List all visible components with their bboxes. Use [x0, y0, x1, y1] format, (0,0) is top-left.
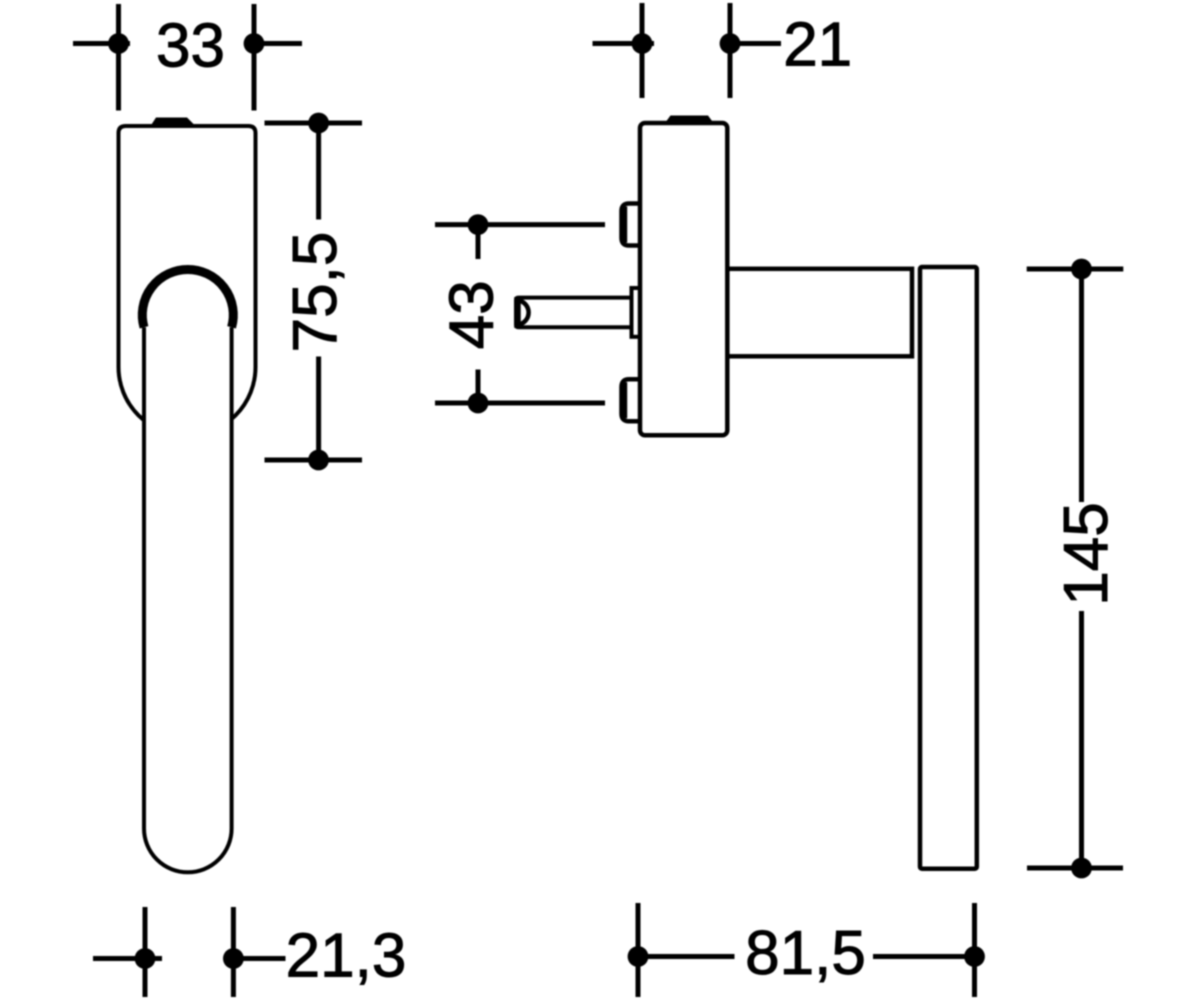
lever grip right edge (front view): [230, 327, 234, 828]
dim 21,3 leader left: [93, 956, 162, 961]
dim 75,5 leader top: [265, 121, 363, 126]
spindle end face arc: [519, 301, 529, 325]
spindle (side view): [516, 298, 632, 328]
dim 21 leader right: [730, 41, 781, 46]
plate top button (side view): [665, 116, 714, 124]
dim 43 dot bottom: [468, 393, 489, 414]
dim 33 extension line right: [252, 4, 257, 111]
dim 43 stub lower: [476, 370, 481, 404]
dim 81,5 dot right: [964, 946, 985, 967]
dim 21 leader left: [593, 41, 655, 46]
dim 21,3 extension line right: [231, 907, 236, 997]
dim 43 stub upper: [476, 225, 481, 259]
dim 33 extension line left: [116, 4, 121, 111]
dim 81,5 dot left: [628, 946, 649, 967]
dim 75,5 dot top: [308, 113, 329, 134]
dim 33 leader right: [244, 41, 302, 46]
dim 145 leader bottom: [1027, 866, 1123, 871]
dim 43 dot top: [468, 214, 489, 235]
dim 43 leader bottom: [435, 401, 605, 406]
svg-text:75,5: 75,5: [281, 232, 350, 353]
lever grip mask fill (front view): [142, 255, 233, 872]
dim 21 dot left: [632, 33, 653, 54]
dim 33 leader left: [73, 41, 130, 46]
dim 21,3 extension line left: [143, 907, 148, 997]
dim 145 line upper segment: [1079, 269, 1084, 502]
dim 33 dot right: [244, 33, 265, 54]
svg-text:81,5: 81,5: [745, 919, 866, 988]
spindle flange (side view): [632, 288, 641, 337]
dim 75,5 dot bottom: [308, 450, 329, 471]
screw boss bottom face bar: [620, 382, 627, 418]
dim 75,5 line upper segment: [316, 123, 321, 220]
dim 75,5 leader bottom: [265, 458, 363, 463]
dim 81,5 extension line left: [636, 903, 641, 997]
svg-text:43: 43: [438, 280, 507, 349]
dim 81,5 leader left: [638, 954, 735, 959]
dim 43 leader top: [435, 222, 605, 227]
svg-text:145: 145: [1052, 502, 1121, 605]
lever grip left edge (front view): [142, 327, 146, 828]
lever grip bottom cap (front view): [144, 829, 232, 873]
dim 145 dot top: [1071, 259, 1092, 280]
rosette body (front view): [119, 126, 256, 436]
dim 145 leader top: [1027, 267, 1124, 272]
spindle end face bar: [514, 297, 521, 328]
dim 21 extension line left: [640, 3, 645, 98]
dim 81,5 leader right: [873, 954, 975, 959]
rosette top button (front view): [151, 118, 196, 127]
dim 21 extension line right: [728, 3, 733, 98]
svg-text:33: 33: [156, 12, 225, 81]
dim 75,5 line lower segment: [316, 357, 321, 461]
dim 145 line lower segment: [1079, 611, 1084, 868]
lever grip bar (side view): [920, 267, 977, 869]
dim 21,3 dot right: [223, 948, 244, 969]
dim 81,5 extension line right: [972, 903, 977, 997]
dim 33 dot left: [108, 33, 129, 54]
svg-text:21: 21: [783, 11, 852, 80]
dim 21,3 leader right: [233, 956, 285, 961]
screw boss top face bar: [620, 207, 627, 243]
dim 21,3 dot left: [135, 948, 156, 969]
screw boss top (side view): [622, 204, 645, 246]
rosette plate (side view): [640, 123, 727, 435]
neck (side view): [727, 269, 912, 357]
dim 145 dot bottom: [1071, 858, 1092, 879]
lever grip neck arc (front view): [142, 269, 233, 327]
dim 21 dot right: [720, 33, 741, 54]
screw boss bottom (side view): [622, 379, 645, 421]
svg-text:21,3: 21,3: [286, 922, 407, 991]
